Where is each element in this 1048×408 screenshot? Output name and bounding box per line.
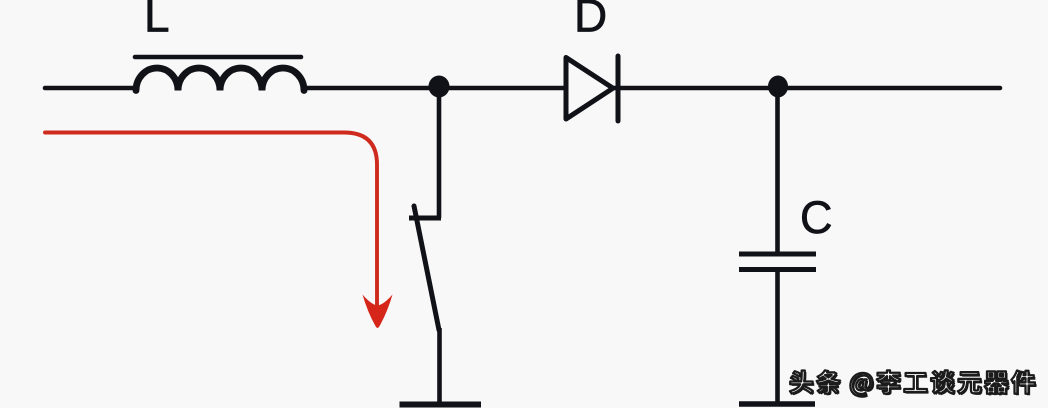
ground under switch bbox=[400, 402, 482, 408]
svg-text:C: C bbox=[800, 192, 833, 243]
ground under capacitor bbox=[739, 401, 815, 407]
wire node A to switch bbox=[437, 88, 442, 218]
watermark 头条 @李工谈元器件 bbox=[792, 372, 1037, 398]
capacitor C top plate bbox=[739, 252, 816, 257]
switch S contact tick bbox=[409, 216, 441, 221]
diode D anode triangle bbox=[566, 58, 613, 120]
current arrow red path bbox=[45, 133, 377, 306]
inductor L core bar bbox=[135, 55, 301, 60]
inductor L windings bbox=[136, 68, 304, 90]
current arrow head bbox=[363, 295, 393, 329]
diode D cathode bar bbox=[616, 56, 621, 121]
node B junction dot bbox=[768, 76, 788, 98]
svg-text:L: L bbox=[144, 0, 170, 42]
wire capacitor to ground bbox=[775, 272, 780, 403]
wire node B to capacitor bbox=[775, 88, 780, 252]
capacitor C bottom plate bbox=[739, 267, 816, 272]
svg-text:D: D bbox=[574, 0, 607, 42]
node A junction dot bbox=[429, 76, 450, 98]
wire diode to output bbox=[612, 86, 1000, 91]
switch S blade bbox=[414, 206, 439, 330]
wire switch to ground bbox=[437, 328, 442, 403]
wire input left bbox=[45, 86, 136, 91]
wire inductor to diode bbox=[304, 86, 564, 91]
